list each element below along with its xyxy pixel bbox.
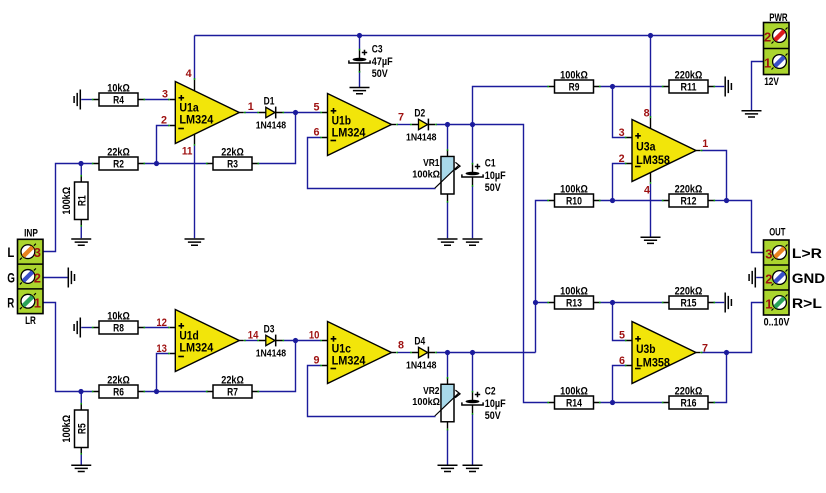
diode D1 1N4148 <box>256 96 287 132</box>
wire R2 to R3 and U1a pin2 <box>144 126 209 164</box>
resistor R4 10k <box>92 82 145 106</box>
wire VR1 bottom to ground <box>447 202 449 238</box>
svg-text:22kΩ: 22kΩ <box>221 374 244 386</box>
svg-text:100kΩ: 100kΩ <box>560 69 588 81</box>
wire D3 to U1c pin10 and R7 <box>258 341 322 392</box>
svg-text:100kΩ: 100kΩ <box>61 187 73 215</box>
svg-text:1: 1 <box>248 101 254 113</box>
wire U1b out to D2 <box>397 124 411 126</box>
svg-text:0..10V: 0..10V <box>764 316 790 328</box>
svg-text:10kΩ: 10kΩ <box>107 310 130 322</box>
wire PWR pin1 to ground <box>752 62 764 111</box>
trimmer VR2 100k <box>412 377 460 430</box>
capacitor C1 10uF <box>462 157 506 194</box>
wire U3a output to OUT pin3 <box>702 151 764 253</box>
resistor R14 100k <box>547 385 600 409</box>
diode D3 1N4148 <box>256 324 287 360</box>
wire R9 left riser <box>473 87 549 125</box>
wire D4 output net to riser x536 <box>436 352 536 354</box>
svg-text:LM324: LM324 <box>332 356 366 368</box>
trimmer VR1 100k <box>412 149 460 202</box>
svg-text:R10: R10 <box>566 195 582 207</box>
node U3a out/R12 junction <box>724 198 729 203</box>
svg-text:LM324: LM324 <box>179 343 213 355</box>
wire U1b pin6 feedback to VR1 wiper <box>308 138 436 189</box>
svg-text:100kΩ: 100kΩ <box>412 169 440 180</box>
svg-text:2: 2 <box>619 153 625 165</box>
wire VR1 top stub <box>447 125 449 150</box>
svg-text:1N4148: 1N4148 <box>406 360 437 371</box>
svg-text:100kΩ: 100kΩ <box>61 415 73 443</box>
svg-text:C2: C2 <box>485 385 496 397</box>
op-amp U1b <box>320 94 397 156</box>
resistor R5 100k <box>61 403 88 455</box>
wire R16 right to output node <box>714 353 727 403</box>
svg-text:22kΩ: 22kΩ <box>221 146 244 158</box>
wire R1 stub up <box>80 164 82 177</box>
op-amp U3a <box>625 120 702 182</box>
svg-text:5: 5 <box>314 102 320 114</box>
svg-text:R12: R12 <box>681 195 697 207</box>
svg-text:220kΩ: 220kΩ <box>675 285 703 297</box>
ground at C1 <box>463 239 483 245</box>
connector PWR <box>764 23 790 75</box>
wire R10 left to D4 net riser <box>536 201 549 353</box>
svg-text:8: 8 <box>398 340 404 352</box>
svg-text:10µF: 10µF <box>485 170 506 182</box>
svg-text:220kΩ: 220kΩ <box>675 69 703 81</box>
svg-text:6: 6 <box>619 355 625 367</box>
connector OUT <box>764 240 790 315</box>
svg-text:100kΩ: 100kΩ <box>560 385 588 397</box>
ground at VR2 <box>438 465 458 471</box>
resistor R9 100k <box>547 69 600 93</box>
wire R9 to R11 and U3a pin3 <box>599 87 664 138</box>
node R13/R15/pin5 junction <box>610 300 615 305</box>
wire R15 to ground <box>714 302 725 304</box>
ground at INP G <box>68 268 74 288</box>
wire R14 to R16 and U3b pin6 <box>599 366 664 403</box>
svg-text:G: G <box>7 270 15 285</box>
wire R4 to ground <box>81 99 92 101</box>
wire U3a pin8 stub <box>650 118 652 128</box>
node R14/R16/pin6 junction <box>610 400 615 405</box>
wire VR2 top stub <box>447 353 449 378</box>
svg-text:R: R <box>7 295 14 310</box>
svg-text:R16: R16 <box>681 397 697 409</box>
svg-text:7: 7 <box>702 342 708 354</box>
node D2/VR1 junction <box>445 122 450 127</box>
svg-text:4: 4 <box>186 68 193 80</box>
wire R4 to U1a pin3 <box>144 99 170 101</box>
svg-text:L: L <box>7 245 14 260</box>
wire power bus 12V <box>195 36 764 118</box>
node R2/R3/pin2 junction <box>154 161 159 166</box>
svg-text:U3b: U3b <box>636 344 655 356</box>
svg-text:R7: R7 <box>227 386 238 398</box>
op-amp U1c <box>320 322 397 384</box>
ground at R15 <box>725 293 731 313</box>
svg-text:D4: D4 <box>414 336 425 348</box>
svg-text:100kΩ: 100kΩ <box>412 397 440 408</box>
wire U3a pin2 loop to R10/R12 node <box>613 164 627 201</box>
svg-text:1N4148: 1N4148 <box>256 120 287 131</box>
resistor R15 220k <box>662 285 715 309</box>
wire C2 bottom to ground <box>472 414 474 465</box>
wire U1a pin4 stub <box>194 80 196 91</box>
resistor R1 100k <box>61 175 88 227</box>
svg-text:U1d: U1d <box>179 330 198 342</box>
svg-text:LM358: LM358 <box>636 357 670 369</box>
ground at C3 <box>350 88 370 94</box>
svg-text:U1c: U1c <box>332 343 352 355</box>
wire INP G to ground <box>43 277 68 279</box>
svg-text:2: 2 <box>765 271 772 286</box>
svg-text:R15: R15 <box>681 297 697 309</box>
svg-text:VR2: VR2 <box>423 386 440 397</box>
node power bus / U3a pin8 junction <box>648 33 653 38</box>
diode D4 1N4148 <box>406 336 437 372</box>
svg-text:LR: LR <box>25 315 36 327</box>
svg-text:R6: R6 <box>113 386 124 398</box>
wire D1 to U1b pin5 and R3 <box>258 113 322 164</box>
wire R1 to ground <box>80 225 82 238</box>
svg-text:R3: R3 <box>227 158 238 170</box>
svg-text:10µF: 10µF <box>485 398 506 410</box>
svg-text:3: 3 <box>162 89 168 101</box>
svg-text:PWR: PWR <box>769 12 787 24</box>
wire C3 to ground <box>359 71 361 87</box>
svg-text:7: 7 <box>398 112 404 124</box>
node D2/C1/R9 junction <box>470 122 475 127</box>
svg-text:2: 2 <box>764 29 771 44</box>
ground at R11 <box>725 77 731 97</box>
wire U1a pin11 to ground <box>194 134 196 145</box>
wire R10 to R12 and U3a pin2 node <box>599 200 664 202</box>
wire U3b output to OUT pin1 <box>702 303 764 353</box>
svg-text:22kΩ: 22kΩ <box>107 374 130 386</box>
wire R13 row to R15 and U3b pin5 <box>536 303 664 341</box>
svg-text:INP: INP <box>24 227 38 239</box>
node D1/R3/pin5 junction <box>293 110 298 115</box>
wire R5 to ground <box>80 453 82 465</box>
wire OUT GND to ground <box>756 277 763 279</box>
ground at PWR 12V <box>742 111 762 117</box>
svg-text:50V: 50V <box>372 68 389 80</box>
svg-text:R8: R8 <box>113 322 124 334</box>
svg-text:1: 1 <box>764 55 771 70</box>
svg-text:50V: 50V <box>485 410 502 422</box>
capacitor C3 47uF <box>349 43 393 80</box>
wire R8 to U1d pin12 <box>144 327 170 329</box>
wire U1c out to D4 <box>397 352 411 354</box>
wire U1d out to D3 <box>245 340 258 342</box>
node R5/R6 junction <box>78 389 83 394</box>
svg-text:U1a: U1a <box>179 102 199 114</box>
svg-text:1N4148: 1N4148 <box>256 348 287 359</box>
svg-text:R13: R13 <box>566 297 582 309</box>
ground at C2 <box>463 465 483 471</box>
svg-text:LM324: LM324 <box>179 115 213 127</box>
svg-text:U3a: U3a <box>636 142 656 154</box>
ground at R5 <box>71 465 91 471</box>
svg-text:D1: D1 <box>264 96 275 108</box>
wire D2 output net: to VR1, C1, R9, down to R14 <box>436 125 549 403</box>
svg-text:L>R: L>R <box>792 246 822 261</box>
wire R12 right to output node <box>714 200 727 202</box>
svg-text:220kΩ: 220kΩ <box>675 385 703 397</box>
ground at OUT GND <box>749 268 755 288</box>
svg-text:220kΩ: 220kΩ <box>675 183 703 195</box>
svg-text:1: 1 <box>34 295 41 310</box>
svg-text:R5: R5 <box>76 423 88 434</box>
svg-text:R4: R4 <box>113 94 124 106</box>
svg-text:5: 5 <box>619 329 625 341</box>
node D4/VR2 junction <box>445 350 450 355</box>
node R6/R7/pin13 junction <box>154 389 159 394</box>
svg-text:OUT: OUT <box>769 227 785 239</box>
svg-text:U1b: U1b <box>332 115 351 127</box>
node U3b out/R16 junction <box>724 350 729 355</box>
svg-text:C3: C3 <box>372 43 383 55</box>
resistor R12 220k <box>662 183 715 207</box>
op-amp U1d <box>168 310 245 372</box>
wire C2 top stub <box>472 353 474 393</box>
svg-text:3: 3 <box>765 246 772 261</box>
ground at R4 <box>74 90 80 110</box>
node D4/C2 junction <box>470 350 475 355</box>
wire C1 bottom to ground <box>472 186 474 238</box>
svg-text:100kΩ: 100kΩ <box>560 183 588 195</box>
svg-text:13: 13 <box>156 343 167 355</box>
svg-text:D2: D2 <box>414 108 425 120</box>
svg-text:GND: GND <box>792 271 825 286</box>
op-amp U3b <box>625 322 702 384</box>
svg-text:4: 4 <box>644 185 651 197</box>
svg-text:LM358: LM358 <box>636 155 670 167</box>
svg-text:12: 12 <box>156 317 167 329</box>
svg-text:3: 3 <box>34 245 41 260</box>
svg-text:R2: R2 <box>113 158 124 170</box>
svg-text:50V: 50V <box>485 182 502 194</box>
svg-text:11: 11 <box>182 145 193 157</box>
wire U1a out to D1 <box>245 112 258 114</box>
svg-text:R1: R1 <box>76 195 88 206</box>
svg-text:22kΩ: 22kΩ <box>107 146 130 158</box>
svg-text:R>L: R>L <box>792 296 822 311</box>
svg-text:100kΩ: 100kΩ <box>560 285 588 297</box>
svg-text:1N4148: 1N4148 <box>406 132 437 143</box>
capacitor C2 10uF <box>462 385 506 422</box>
op-amp U1a <box>168 82 245 144</box>
svg-text:R9: R9 <box>569 81 580 93</box>
resistor R10 100k <box>547 183 600 207</box>
resistor R8 10k <box>92 310 145 334</box>
wire R5 stub up <box>80 392 82 404</box>
svg-text:VR1: VR1 <box>423 158 440 169</box>
wire VR2 bottom to ground <box>447 430 449 465</box>
resistor R11 220k <box>662 69 715 93</box>
node power bus / C3 junction <box>357 33 362 38</box>
svg-text:LM324: LM324 <box>332 128 366 140</box>
svg-text:C1: C1 <box>485 157 496 169</box>
resistor R16 220k <box>662 385 715 409</box>
ground at R1 <box>71 239 91 245</box>
resistor R6 22k <box>92 374 145 398</box>
wire R6 to R7 and U1d pin13 <box>144 354 209 392</box>
svg-text:1: 1 <box>702 138 708 150</box>
svg-text:2: 2 <box>34 270 41 285</box>
svg-text:10: 10 <box>309 330 320 342</box>
svg-text:12V: 12V <box>764 76 779 88</box>
ground at U1a pin11 <box>185 239 205 245</box>
wire U1c pin9 feedback to VR2 wiper <box>308 366 436 417</box>
svg-text:10kΩ: 10kΩ <box>107 82 130 94</box>
svg-text:D3: D3 <box>264 324 275 336</box>
node R9/R11/pin3 junction <box>610 84 615 89</box>
ground at VR1 <box>438 239 458 245</box>
wire R11 to ground <box>714 86 725 88</box>
node R10-R13 riser junction <box>533 300 538 305</box>
resistor R13 100k <box>547 285 600 309</box>
resistor R2 22k <box>92 146 145 170</box>
svg-text:R14: R14 <box>566 397 583 409</box>
svg-text:1: 1 <box>765 296 772 311</box>
svg-text:47µF: 47µF <box>372 56 393 68</box>
svg-text:3: 3 <box>619 127 625 139</box>
wire U3a pin4 to ground <box>650 172 652 182</box>
wire C1 top stub <box>472 125 474 165</box>
ground at U3a pin4 <box>641 237 661 243</box>
resistor R7 22k <box>206 374 259 398</box>
node R1/R2 junction <box>78 161 83 166</box>
svg-text:2: 2 <box>161 115 167 127</box>
svg-text:9: 9 <box>314 355 320 367</box>
connector INP <box>18 239 44 313</box>
node R10/R12/pin2 junction <box>610 198 615 203</box>
wire INP R to R5/R6 node <box>43 303 94 392</box>
svg-text:R11: R11 <box>681 81 697 93</box>
svg-text:14: 14 <box>248 329 259 341</box>
resistor R3 22k <box>206 146 259 170</box>
node D3/R7/pin10 junction <box>293 338 298 343</box>
wire INP L to R1/R2 node <box>43 164 94 252</box>
svg-text:8: 8 <box>644 108 650 120</box>
diode D2 1N4148 <box>406 108 437 144</box>
svg-text:6: 6 <box>314 127 320 139</box>
ground at R8 <box>74 318 80 338</box>
wire R8 to ground <box>81 327 92 329</box>
